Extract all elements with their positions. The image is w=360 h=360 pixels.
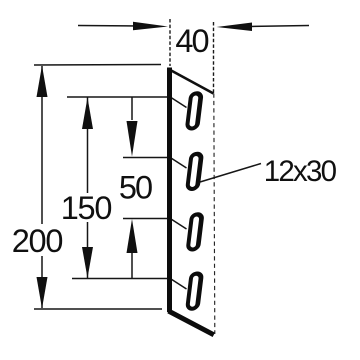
slot 4 (12x30) [187,273,202,309]
dimension 40: right dimension line [250,26,309,27]
dimension 40: right arrowhead [217,23,253,32]
dimension 40: left dimension line [78,25,140,28]
svg-text:12x30: 12x30 [264,155,337,188]
dimension 200: vertical line upper segment [41,66,43,224]
plate top edge [168,69,214,94]
dimension 150: up arrowhead [82,98,93,130]
extension line: slot 4 centre [72,278,172,280]
extension line: plate top (200 dim) [34,64,161,67]
dimension 150: down arrowhead [82,247,93,278]
extension diagonal into slot 1 [171,98,187,108]
extension line: plate bottom (200 dim) [34,308,162,310]
dimension 200: up arrowhead [37,66,48,98]
plate right edge [214,94,215,335]
slot 1 (12x30) [187,93,202,129]
dimension 50: upper tail line [131,98,133,121]
dimension 200: vertical line lower segment [41,256,43,308]
extension diagonal into slot 3 [171,219,187,229]
plate left edge (bold) [167,68,172,313]
slot 3 (12x30) [188,214,203,250]
slot 2 (12x30) [187,154,202,190]
dimension 50: lower tail line [131,252,133,279]
dimension 40: right extension line [213,22,215,93]
extension line: slot 1 centre [67,96,172,98]
dimension 50: lower up arrowhead [127,219,138,253]
svg-text:40: 40 [175,23,208,59]
svg-text:150: 150 [61,190,112,226]
svg-text:200: 200 [12,223,63,259]
plate bottom edge (bold) [169,311,214,335]
svg-text:50: 50 [119,169,152,205]
leader line to slot 2 [200,164,261,183]
extension line: slot 3 centre [123,218,172,220]
extension line: slot 2 centre [123,157,172,159]
extension diagonal into slot 2 [171,158,187,168]
dimension 40: left arrowhead [133,22,168,30]
dimension 200: down arrowhead [37,277,48,309]
dimension 40: left extension line [169,19,171,66]
dimension 150: vertical line upper segment [87,98,89,194]
dimension 50: upper down arrowhead [127,121,138,157]
dimension 150: vertical line lower segment [87,222,89,278]
extension diagonal into slot 4 [171,279,187,289]
